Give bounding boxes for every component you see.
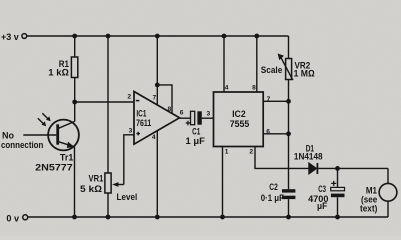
node bottom rail junction IC2 pin1: [220, 215, 225, 220]
svg-text:VR1: VR1: [89, 173, 104, 184]
svg-text:0 v: 0 v: [6, 213, 19, 224]
wire IC1 pin 7 supply: [156, 36, 158, 105]
node bottom rail junction emitter: [72, 215, 77, 220]
svg-text:4: 4: [225, 84, 229, 91]
node top rail junction R1: [72, 34, 77, 39]
potentiometer VR2 (variable, Scale): [278, 36, 315, 101]
node 0V terminal: [23, 215, 28, 220]
node bottom rail junction C3: [335, 215, 340, 220]
svg-text:5 kΩ: 5 kΩ: [80, 184, 102, 195]
node bottom rail junction C2: [286, 215, 291, 220]
svg-text:text): text): [360, 203, 377, 214]
svg-text:6: 6: [180, 109, 184, 116]
node pin7/pin8 junction: [155, 83, 160, 88]
capacitor C3 (4700uF polarized): [308, 168, 344, 217]
node +3V terminal: [22, 34, 27, 39]
wire IC2 pin 7 to VR2: [263, 100, 288, 102]
svg-text:3: 3: [129, 127, 133, 134]
node pin6 junction: [286, 131, 291, 136]
node top rail junction IC2 pin4: [222, 34, 227, 39]
wire IC2 pin 2: [255, 147, 309, 169]
svg-text:C2: C2: [269, 182, 278, 193]
node D1/C3/M1 junction: [335, 166, 340, 171]
node VR2/pin7 junction: [286, 99, 291, 104]
svg-text:2: 2: [249, 148, 253, 155]
potentiometer VR1: [80, 36, 134, 217]
svg-text:1 kΩ: 1 kΩ: [48, 68, 69, 79]
svg-text:connection: connection: [1, 140, 44, 151]
node bottom rail junction VR1: [106, 215, 111, 220]
svg-text:0·1 μF: 0·1 μF: [261, 193, 284, 204]
svg-text:1 μF: 1 μF: [186, 136, 205, 147]
transistor Tr1 (phototransistor 2N5777): [23, 102, 79, 217]
resistor R1: [48, 36, 78, 101]
svg-text:1: 1: [225, 148, 229, 155]
svg-text:μF: μF: [317, 201, 327, 212]
svg-text:Level: Level: [117, 192, 138, 203]
light arrow 2 into Tr1: [42, 113, 50, 121]
wire IC1 output pin 6: [180, 117, 191, 119]
wire IC2 pin 6: [263, 133, 288, 135]
svg-text:6: 6: [266, 128, 270, 135]
svg-text:3: 3: [207, 111, 211, 118]
wire top +3V rail: [27, 35, 289, 37]
wire IC1 pin 4 to 0V: [156, 131, 158, 217]
node top rail junction IC2 pin8: [254, 34, 259, 39]
No connection label: [1, 131, 44, 152]
op-amp U1 IC1 7611: [134, 92, 180, 145]
wire VR2 junction down: [288, 101, 290, 134]
svg-text:7555: 7555: [230, 119, 250, 130]
svg-text:4: 4: [152, 134, 156, 141]
diode D1 1N4148: [294, 144, 388, 175]
node junction R1/collector/pin2: [72, 100, 77, 105]
svg-text:2N5777: 2N5777: [35, 162, 72, 173]
svg-text:7611: 7611: [136, 118, 152, 129]
svg-text:7: 7: [267, 96, 271, 103]
timer IC2 7555: [214, 92, 264, 147]
wire pin6 node to C2: [288, 134, 290, 189]
node top rail junction IC1 pin7: [155, 34, 160, 39]
svg-text:+3 v: +3 v: [1, 32, 19, 43]
svg-text:1 MΩ: 1 MΩ: [294, 68, 315, 79]
wire junction to IC1 pin 2: [75, 101, 134, 103]
meter M1: [360, 168, 397, 217]
capacitor C2 (0.1uF): [261, 182, 296, 217]
svg-text:Scale: Scale: [261, 65, 283, 76]
svg-text:2: 2: [127, 93, 131, 100]
svg-text:8: 8: [168, 106, 172, 113]
wire bottom 0V rail: [28, 216, 388, 218]
node bottom rail junction IC1 pin4: [155, 215, 160, 220]
wire IC2 pin 1 to 0V: [222, 147, 224, 218]
light arrow 1 into Tr1: [38, 118, 46, 126]
wire IC2 pin 8 supply: [256, 36, 258, 92]
wire pin 8 bracket: [157, 85, 172, 113]
Tr1 labels: [35, 153, 74, 174]
svg-text:7: 7: [153, 94, 157, 101]
svg-text:8: 8: [252, 84, 256, 91]
svg-text:1N4148: 1N4148: [294, 152, 323, 163]
capacitor C1 (1uF polarized): [186, 111, 214, 147]
wire IC2 pin 4 supply: [223, 36, 225, 92]
node top rail junction VR1: [106, 34, 111, 39]
